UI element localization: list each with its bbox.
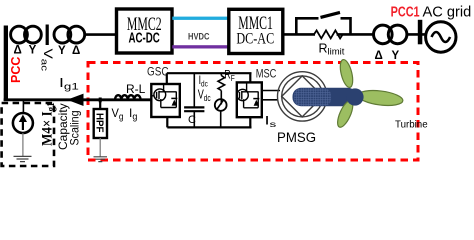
wires MSC to PMSG	[262, 90, 280, 92]
DC+ rail	[167, 72, 252, 74]
turbine blade upper	[338, 58, 355, 88]
svg-text:PMSG: PMSG	[277, 129, 316, 145]
HPF branch junction	[99, 98, 102, 103]
svg-text:Δ: Δ	[14, 44, 22, 56]
MSC IGBT with diode	[237, 82, 259, 107]
PCC1 bus bar	[418, 20, 423, 45]
svg-text:GSC: GSC	[147, 65, 169, 79]
DC- rail	[167, 126, 251, 128]
turbine blade right	[357, 88, 403, 107]
svg-text:AC grid: AC grid	[423, 4, 472, 21]
wire T2 to MMC2	[85, 33, 116, 36]
inductor R-L (coil)	[115, 95, 141, 100]
HVDC purple line	[172, 45, 229, 48]
svg-text:C: C	[188, 114, 196, 126]
transformer T3	[374, 25, 393, 44]
MSC top stub	[249, 73, 251, 82]
wire Rlimit to transformer T3	[337, 33, 373, 36]
svg-text:Δ: Δ	[375, 50, 383, 62]
svg-text:AC-DC: AC-DC	[129, 30, 160, 46]
transformer T1	[11, 26, 28, 43]
PMSG generator	[278, 72, 327, 121]
red dashed boundary (wind farm model)	[88, 63, 418, 161]
turbine hub nose	[346, 88, 363, 105]
svg-text:Δ: Δ	[72, 45, 80, 57]
turbine blade lower	[335, 99, 356, 129]
svg-text:Y: Y	[29, 44, 37, 56]
HPF box	[94, 109, 107, 138]
svg-text:Scaling: Scaling	[68, 111, 82, 146]
ground (current source)	[14, 156, 32, 161]
MMC1 box	[229, 9, 283, 53]
MSC converter box	[237, 82, 262, 117]
wire HPF to ground	[99, 138, 101, 157]
GSC converter box	[151, 84, 180, 117]
wire MMC1 to Rlimit node	[283, 33, 315, 36]
svg-text:MSC: MSC	[256, 69, 277, 81]
wire T3 to AC grid	[407, 33, 426, 36]
MSC bottom stub	[249, 117, 251, 127]
PCC bus (left vertical bar)	[4, 26, 8, 102]
svg-text:HPF: HPF	[94, 113, 105, 133]
ground (HPF)	[94, 157, 108, 162]
main AC wire (bottom)	[4, 98, 152, 101]
svg-text:DC-AC: DC-AC	[236, 30, 274, 48]
shaft / nacelle	[293, 88, 357, 106]
resistor Rlimit	[314, 30, 343, 38]
svg-text:Turbine: Turbine	[395, 120, 428, 131]
chopper resistor RF	[220, 73, 222, 75]
breaker switch (parallel bypass)	[296, 18, 318, 34]
Vac measurement bar	[46, 25, 49, 46]
chopper switch (circle)	[215, 99, 227, 111]
GSC top stub to DC+ rail	[166, 73, 168, 84]
black dashed box (aggregation)	[2, 103, 54, 166]
GSC bottom stub to DC- rail	[166, 117, 168, 127]
wire current source to ground	[22, 133, 24, 156]
svg-text:PCC1: PCC1	[391, 5, 420, 21]
HVDC cyan line	[172, 17, 229, 20]
svg-text:PCC: PCC	[9, 57, 23, 83]
current source (aggregated)	[22, 100, 24, 113]
transformer T2	[54, 26, 71, 43]
AC source (grid)	[426, 22, 456, 52]
svg-text:Y: Y	[392, 50, 400, 62]
svg-text:R-L: R-L	[126, 82, 146, 96]
MMC2 box	[117, 9, 173, 53]
svg-text:HVDC: HVDC	[188, 31, 210, 42]
capacitor C branch	[193, 73, 195, 106]
arrow Ig1 (current direction)	[67, 94, 84, 106]
GSC IGBT with diode	[151, 84, 177, 108]
svg-text:Y: Y	[58, 45, 66, 57]
